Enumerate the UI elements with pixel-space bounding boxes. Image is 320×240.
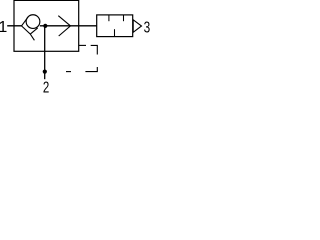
pilot junction dot — [43, 70, 47, 74]
exhaust triangle — [133, 20, 141, 33]
quick exhaust valve V1 body — [14, 0, 79, 51]
pilot line dash d — [66, 71, 71, 73]
pilot line dash b with corner — [91, 45, 98, 54]
junction node dot — [43, 24, 47, 28]
silencer baffle bottom — [114, 29, 116, 36]
svg-text:3: 3 — [144, 20, 150, 37]
silencer baffle top right — [123, 15, 125, 21]
wire down to port 2 — [44, 26, 46, 79]
check valve seat lower arm — [22, 26, 35, 40]
pilot line dash a — [79, 44, 86, 46]
svg-text:1: 1 — [0, 19, 7, 36]
svg-text:2: 2 — [43, 80, 49, 95]
wire valve to port 3 side — [40, 25, 79, 27]
wire valve to silencer — [79, 25, 97, 27]
wire port 1 to valve — [7, 25, 21, 27]
silencer body — [97, 15, 133, 37]
silencer baffle top left — [108, 15, 110, 21]
check valve ball — [26, 15, 40, 29]
pilot line dash c with corner — [85, 67, 97, 72]
check valve seat line — [30, 28, 37, 34]
flow arrow to port 3 — [58, 16, 70, 36]
check valve seat upper arm — [22, 17, 29, 26]
